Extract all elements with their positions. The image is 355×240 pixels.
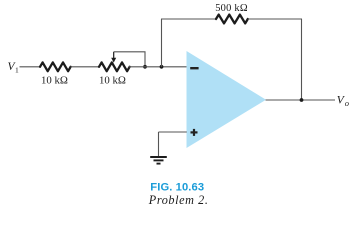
svg-text:500 kΩ: 500 kΩ — [215, 3, 248, 14]
node junction output/feedback — [300, 98, 304, 102]
resistor R1 — [40, 62, 71, 71]
wire ground riser — [158, 132, 160, 157]
wire feedback right vertical — [301, 19, 303, 100]
node Vo (output label) — [337, 94, 349, 108]
potentiometer R2 — [99, 62, 130, 71]
svg-text:1: 1 — [15, 65, 19, 74]
node junction wiper/input line — [143, 65, 147, 69]
op-amp inverting input marker — [190, 67, 198, 69]
wire feedback top right — [248, 18, 302, 20]
wire non-inverting input — [159, 131, 187, 133]
wire output — [266, 99, 336, 101]
wiper arrow of R2 — [111, 52, 116, 63]
resistor R3 (feedback) — [216, 15, 248, 24]
op-amp non-inverting input marker — [191, 129, 198, 136]
wire feedback top left — [161, 18, 217, 20]
svg-text:Problem 2.: Problem 2. — [148, 193, 209, 207]
wire feedback left vertical — [161, 19, 163, 67]
svg-text:10 kΩ: 10 kΩ — [99, 74, 126, 86]
svg-text:10 kΩ: 10 kΩ — [41, 74, 68, 86]
ground — [150, 157, 167, 164]
op-amp U1 — [187, 51, 267, 148]
node V1 (input source label) — [8, 61, 20, 74]
wire R2 to op-amp inverting input — [129, 66, 187, 68]
wire R1 to R2 — [71, 66, 100, 68]
wire V1 to R1 — [20, 66, 41, 68]
svg-text:FIG. 10.63: FIG. 10.63 — [150, 182, 204, 194]
node junction feedback/input line — [160, 65, 164, 69]
wire wiper to node (rheostat connection) — [114, 52, 145, 67]
svg-text:o: o — [345, 98, 349, 108]
